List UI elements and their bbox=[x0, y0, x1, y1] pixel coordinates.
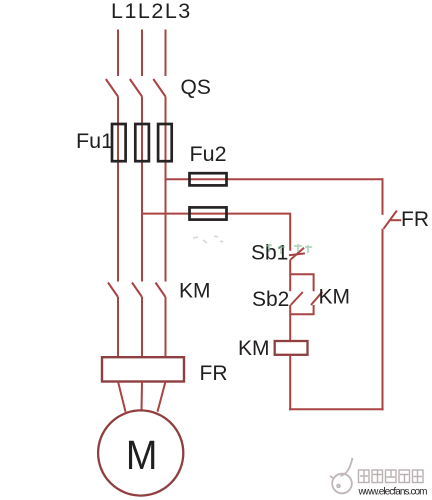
svg-text:Fu1: Fu1 bbox=[76, 129, 113, 153]
watermark logo swirl bbox=[330, 458, 353, 493]
fuse Fu2 lower bbox=[190, 207, 227, 219]
button Sb1 (NC stop) bar bbox=[289, 253, 305, 255]
wire heater to motor middle bbox=[141, 382, 144, 412]
svg-text:M: M bbox=[126, 432, 157, 478]
fuse Fu1 pole 2 bbox=[135, 124, 149, 161]
svg-text:QS: QS bbox=[181, 76, 211, 99]
svg-text:Sb2: Sb2 bbox=[252, 288, 289, 311]
button Sb2 (NO start) blade bbox=[291, 292, 303, 305]
wire heater to motor left bbox=[118, 382, 126, 412]
watermark brand glyphs bbox=[359, 470, 424, 483]
contact KM auxiliary blade bbox=[311, 292, 322, 305]
wire L1 incoming bbox=[117, 30, 119, 77]
contactor KM main pole 2 blade bbox=[132, 283, 142, 298]
button Sb1 (NC stop) blade bbox=[291, 248, 305, 260]
wire L1 to heater bbox=[117, 297, 119, 358]
wire L3 incoming bbox=[165, 30, 167, 77]
wire L1 phase drop bbox=[117, 97, 119, 282]
wire Sb2 to coil bbox=[289, 305, 291, 341]
motor M circle bbox=[98, 410, 183, 495]
wire L2 incoming bbox=[141, 30, 143, 77]
relay heater FR box bbox=[102, 357, 184, 381]
wire coil to bottom rail bbox=[289, 355, 291, 411]
relay contact FR (NC) blade bbox=[384, 211, 397, 229]
fuse Fu1 pole 1 bbox=[112, 124, 126, 161]
switch QS pole 1 blade bbox=[106, 79, 118, 97]
wire bottom rail bbox=[289, 408, 384, 410]
svg-text:KM: KM bbox=[238, 337, 270, 360]
contactor KM main pole 1 blade bbox=[108, 283, 118, 298]
svg-text:FR: FR bbox=[200, 362, 228, 385]
wire parallel branch top bbox=[290, 274, 313, 291]
watermark green smudge near Sb1 bbox=[266, 244, 312, 254]
watermark gray marks mid bbox=[193, 236, 223, 243]
wire L2 to heater bbox=[141, 297, 143, 358]
wire control phase B (from L2) bbox=[142, 214, 290, 251]
wire L3 to heater bbox=[165, 297, 167, 358]
coil KM bbox=[275, 341, 308, 355]
svg-text:Fu2: Fu2 bbox=[190, 142, 227, 166]
svg-text:KM: KM bbox=[319, 286, 351, 309]
svg-text:www.elecfans.com: www.elecfans.com bbox=[358, 487, 428, 498]
wire right rail lower bbox=[382, 229, 384, 411]
switch QS pole 3 blade bbox=[153, 79, 165, 97]
wire Sb1 to branch node bbox=[289, 260, 291, 292]
wire L2 phase drop bbox=[141, 97, 143, 282]
svg-text:KM: KM bbox=[179, 279, 211, 302]
switch QS pole 2 blade bbox=[130, 79, 142, 97]
relay contact FR (NC) bar bbox=[389, 219, 401, 221]
svg-text:L1L2L3: L1L2L3 bbox=[111, 0, 192, 23]
wire control phase A (from L3) bbox=[166, 178, 383, 180]
wire parallel branch bottom bbox=[290, 305, 313, 314]
fuse Fu1 pole 3 bbox=[158, 124, 172, 161]
wire L3 phase drop bbox=[165, 97, 167, 282]
wire right rail upper bbox=[382, 178, 384, 215]
fuse Fu2 upper bbox=[190, 173, 227, 185]
contactor KM main pole 3 blade bbox=[156, 283, 166, 298]
svg-text:FR: FR bbox=[401, 208, 429, 231]
wire heater to motor right bbox=[158, 382, 166, 412]
